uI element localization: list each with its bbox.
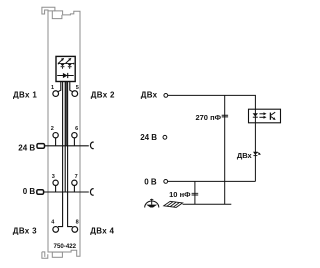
- LED wire: [58, 63, 74, 65]
- terminal 6 with stub: [73, 138, 75, 146]
- svg-text:24 В: 24 В: [140, 133, 157, 142]
- svg-text:270 пФ: 270 пФ: [195, 113, 221, 122]
- diode D3: [57, 73, 73, 78]
- optocoupler light arrows: [259, 112, 266, 119]
- 0V wire: [168, 180, 256, 182]
- module bottom hook: [42, 252, 48, 258]
- terminal 1: [53, 91, 59, 97]
- optocoupler wire through: [254, 109, 256, 181]
- capacitor C2 plates 10nF: [192, 193, 199, 195]
- capacitor C1 plates 270pF: [222, 115, 228, 117]
- svg-text:1: 1: [51, 85, 54, 91]
- svg-text:ДВх 2: ДВх 2: [91, 91, 115, 100]
- svg-text:6: 6: [75, 126, 78, 132]
- svg-text:ДВх: ДВх: [237, 151, 253, 160]
- svg-text:10 нФ: 10 нФ: [169, 190, 191, 199]
- LED D2: [66, 58, 72, 69]
- 24V jumper contact arc: [90, 142, 93, 149]
- wire to pin 5: [70, 82, 74, 93]
- svg-text:24 В: 24 В: [18, 143, 35, 152]
- terminal 7 with stub: [73, 185, 75, 192]
- terminal 4: [53, 227, 59, 233]
- svg-text:3: 3: [52, 174, 55, 180]
- svg-text:8: 8: [76, 220, 79, 226]
- LED D1: [58, 58, 64, 69]
- clean earth symbol: [145, 199, 159, 208]
- svg-text:0 В: 0 В: [23, 187, 36, 196]
- status LED tap on wire: [253, 152, 261, 156]
- module body outline 750-422: [42, 7, 80, 256]
- svg-text:750-422: 750-422: [54, 243, 77, 250]
- module top tongue: [48, 11, 62, 19]
- DVx input wire: [168, 95, 256, 109]
- 24V bus line: [45, 145, 89, 147]
- svg-text:ДВх 3: ДВх 3: [13, 226, 37, 235]
- wire 24V tap: [65, 82, 67, 146]
- svg-text:ДВх 1: ДВх 1: [13, 91, 37, 100]
- svg-text:ДВх 4: ДВх 4: [90, 226, 114, 235]
- wire to pin 8: [68, 82, 73, 227]
- wire 0V tap: [64, 82, 66, 193]
- module bottom notch: [52, 252, 62, 257]
- 24V field marker: [37, 144, 45, 149]
- optocoupler LED: [253, 113, 258, 117]
- terminal 3 with stub: [55, 185, 57, 192]
- wire to pin 4: [58, 82, 63, 227]
- node 0V circle: [164, 180, 168, 184]
- 0V jumper contact arc: [90, 189, 93, 196]
- terminal 2 with stub: [55, 138, 57, 146]
- svg-text:7: 7: [75, 174, 78, 180]
- phototransistor Q1: [270, 112, 275, 120]
- svg-text:ДВх: ДВх: [141, 91, 158, 100]
- node 24V circle: [163, 135, 167, 139]
- chassis line: [183, 203, 232, 205]
- node DVx circle: [164, 94, 168, 98]
- svg-text:4: 4: [51, 220, 55, 226]
- 0V bus line: [43, 191, 89, 193]
- 0V field marker: [37, 190, 44, 194]
- capacitor C1 branch wire: [224, 95, 226, 204]
- rail ground symbol: [164, 201, 183, 207]
- svg-text:0 В: 0 В: [144, 177, 157, 186]
- optocoupler U2 box: [249, 109, 281, 123]
- svg-text:2: 2: [51, 126, 54, 132]
- electronics box U1: [56, 56, 75, 81]
- capacitor C2 branch wire: [194, 181, 196, 204]
- terminal 8: [72, 227, 78, 233]
- terminal 5: [72, 91, 78, 97]
- svg-text:5: 5: [76, 85, 79, 91]
- wire to pin 1: [57, 82, 61, 93]
